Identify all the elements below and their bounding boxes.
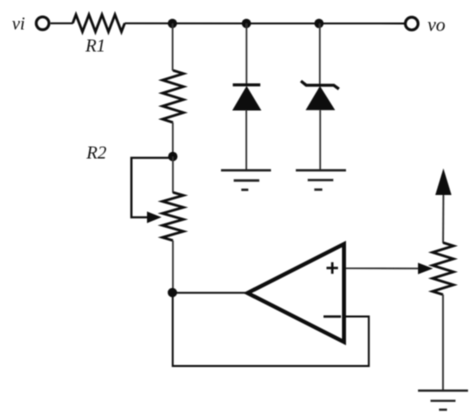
wire zener D2 to ground [319,110,321,171]
wire A down to upper resistor [172,23,174,70]
node junction E [168,288,177,297]
wire diode D1 to ground [245,110,247,170]
wire right pot to ground [442,295,444,391]
diode D1 cathode bar [233,83,260,86]
potentiometer R2 body [162,192,183,240]
ground (diode D1) [221,170,271,190]
wire node D to potentiometer R2 [172,157,174,193]
wire arrow to right pot [442,195,444,243]
wire pot to node E [172,241,174,293]
terminal vi [36,17,49,30]
svg-text:vo: vo [428,15,446,36]
wire resistor to node D [172,123,174,157]
svg-text:R1: R1 [85,36,106,56]
supply up arrowhead [435,168,451,195]
svg-text:vi: vi [12,14,25,34]
wire vi to R1 [51,22,74,24]
diode D1 body [233,87,260,110]
wiper arrowhead right pot [418,263,433,274]
wire plus input to wiper of right pot [346,267,421,269]
wiper arrowhead R2 [147,212,162,224]
wire node B down to diode D1 [246,23,248,85]
resistor (upper part of divider) [163,70,184,122]
node junction D [168,152,177,161]
zener D2 body [307,87,335,110]
node junction A (top of R branch) [168,19,177,28]
wire top rail [125,22,405,24]
wire wiper bracket of R2 [131,158,172,218]
potentiometer right body [433,243,454,295]
ground (right) [418,391,468,410]
node junction C (zener D2 top) [314,19,323,28]
wire node C down to zener D2 [319,23,321,85]
node junction B (diode D1 top) [242,19,251,28]
op-amp plus input marking [327,262,339,274]
op-amp minus input marking [324,315,342,317]
ground (zener D2) [296,170,346,189]
wire node E to op-amp output apex [172,292,247,294]
wire minus input feedback loop [173,293,369,366]
terminal vo [405,17,418,30]
op-amp U1 [248,244,345,342]
resistor R1 [73,15,125,32]
svg-text:R2: R2 [86,143,107,163]
zener D2 cathode bar [301,81,339,89]
